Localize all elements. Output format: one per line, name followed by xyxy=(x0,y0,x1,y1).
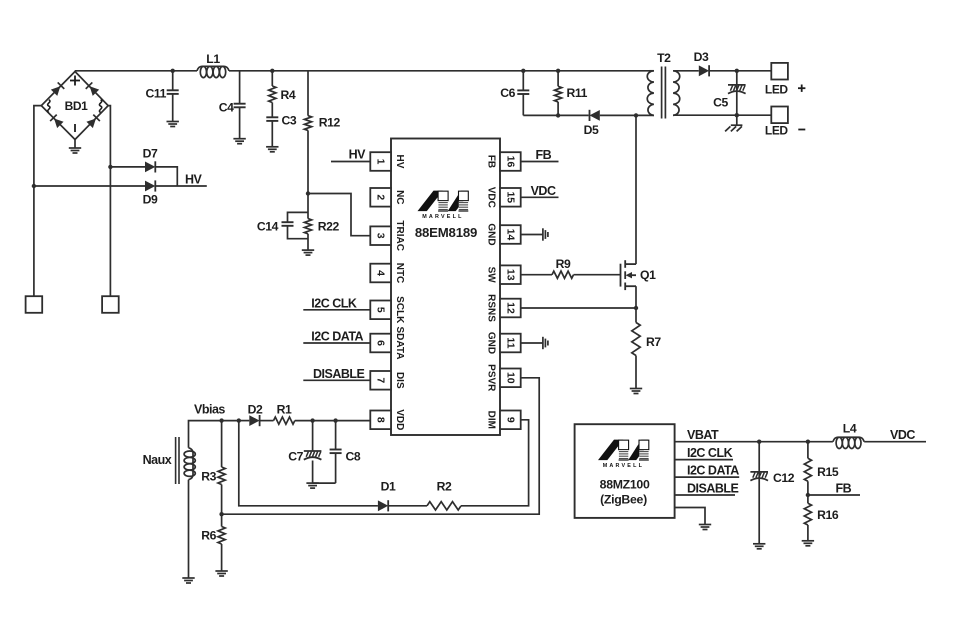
node drain at snubber xyxy=(634,113,638,117)
svg-text:DIM: DIM xyxy=(486,411,497,429)
svg-text:C5: C5 xyxy=(713,96,728,110)
transformer T2 core xyxy=(662,67,666,119)
ground at pin 11 xyxy=(543,337,548,349)
svg-text:NTC: NTC xyxy=(394,263,405,284)
LED+ terminal xyxy=(771,63,788,80)
svg-text:I2C DATA: I2C DATA xyxy=(311,330,363,344)
svg-text:C6: C6 xyxy=(500,86,515,100)
svg-text:C12: C12 xyxy=(773,471,795,485)
resistor R16 xyxy=(807,495,809,503)
svg-text:GND: GND xyxy=(486,332,497,354)
svg-text:5: 5 xyxy=(375,307,387,313)
svg-text:14: 14 xyxy=(504,229,516,241)
wire D3 to LED+ xyxy=(709,70,771,72)
svg-text:VBAT: VBAT xyxy=(687,428,719,442)
svg-text:(ZigBee): (ZigBee) xyxy=(600,493,647,507)
diode D7 xyxy=(145,161,155,172)
svg-text:HV: HV xyxy=(394,155,405,169)
wire to diode D7 xyxy=(110,166,145,168)
bridge plus mark xyxy=(70,76,80,86)
resistor R11 xyxy=(557,71,559,87)
svg-text:1: 1 xyxy=(375,159,387,165)
wire R7 to ground xyxy=(635,356,637,389)
inductor L4 xyxy=(833,437,864,442)
svg-text:15: 15 xyxy=(504,191,516,203)
svg-text:NC: NC xyxy=(394,190,405,204)
svg-text:R2: R2 xyxy=(437,480,452,494)
svg-text:SDATA: SDATA xyxy=(394,327,405,360)
svg-text:10: 10 xyxy=(504,372,516,384)
capacitor C12 xyxy=(758,442,760,544)
node D2 branch xyxy=(237,418,241,422)
pin 9 box xyxy=(500,411,521,430)
wire D7 cathode down to HV line xyxy=(155,167,177,186)
node on right AC line xyxy=(108,165,112,169)
ground below R6 xyxy=(215,571,227,576)
transistor Q1 MOSFET xyxy=(621,260,637,290)
resistor R12 xyxy=(307,71,309,116)
resistor R4 xyxy=(271,71,273,86)
svg-text:I2C CLK: I2C CLK xyxy=(311,296,357,310)
ground below R7 xyxy=(630,389,642,394)
svg-text:R3: R3 xyxy=(201,470,216,484)
diode D1 xyxy=(378,500,388,511)
wire pin 12 RSNS to node xyxy=(521,307,636,309)
bridge minus mark xyxy=(74,124,76,132)
svg-text:D1: D1 xyxy=(381,480,396,494)
transformer T2 primary winding xyxy=(647,71,654,116)
ground below C3 xyxy=(266,147,278,152)
bridge diode bottom-right xyxy=(86,115,99,129)
svg-text:3: 3 xyxy=(375,233,387,239)
LED- terminal xyxy=(771,107,788,124)
capacitor C14 xyxy=(288,212,309,222)
svg-text:LED: LED xyxy=(765,124,789,138)
winding Naux xyxy=(189,448,194,480)
AC input terminal left xyxy=(26,296,43,313)
svg-text:R15: R15 xyxy=(817,465,839,479)
wire bridge left vertex to AC terminal xyxy=(34,106,41,297)
ground below U2 xyxy=(699,525,711,530)
svg-text:HV: HV xyxy=(185,173,203,187)
svg-text:MARVELL: MARVELL xyxy=(422,214,463,220)
svg-text:I2C CLK: I2C CLK xyxy=(687,446,733,460)
pin 15 box xyxy=(500,188,521,207)
wire D1 to R2 xyxy=(388,505,427,507)
wire Naux bottom to ground xyxy=(188,480,190,578)
svg-text:88EM8189: 88EM8189 xyxy=(415,225,477,240)
resistor R7 xyxy=(635,308,637,323)
wire D5 to drain node xyxy=(600,114,650,116)
node R15 top xyxy=(806,440,810,444)
svg-text:FB: FB xyxy=(836,482,852,496)
svg-text:T2: T2 xyxy=(657,51,671,65)
node C8 xyxy=(333,418,337,422)
bridge diode top-left xyxy=(51,82,64,96)
diode D3 xyxy=(699,65,709,76)
ground below C11 xyxy=(167,122,179,127)
resistor R3 xyxy=(221,421,223,467)
svg-text:BD1: BD1 xyxy=(65,99,89,113)
wire HV to pin 1 xyxy=(331,161,370,163)
svg-text:VDC: VDC xyxy=(890,428,915,442)
svg-text:HV: HV xyxy=(349,148,367,162)
node output cap top xyxy=(735,69,739,73)
Marvell logo on U2 xyxy=(598,440,649,470)
svg-text:GND: GND xyxy=(486,223,497,245)
pin 16 box xyxy=(500,152,521,171)
pin 7 box xyxy=(370,371,391,390)
pin 1 box xyxy=(370,152,391,171)
capacitor C7 xyxy=(312,421,314,451)
wire I2C DATA stub xyxy=(675,476,740,478)
wire C7 C8 common to ground xyxy=(313,482,336,484)
svg-text:Naux: Naux xyxy=(143,453,172,467)
pin 11 box xyxy=(500,334,521,353)
IC U2 88MZ100 body xyxy=(575,424,675,518)
svg-text:R6: R6 xyxy=(201,529,216,543)
ground below R16 xyxy=(802,541,814,546)
svg-text:9: 9 xyxy=(504,417,516,423)
wire pin 10 PSVR loop to bias divider xyxy=(222,378,540,514)
svg-text:L4: L4 xyxy=(843,422,857,436)
diode D2 xyxy=(239,420,250,422)
svg-text:FB: FB xyxy=(536,148,552,162)
wire I2C CLK stub xyxy=(675,459,733,461)
ground below C7 xyxy=(306,483,318,488)
wire secondary bottom to LED- xyxy=(673,114,771,116)
pin 5 box xyxy=(370,301,391,320)
svg-text:6: 6 xyxy=(375,340,387,346)
transformer T2 secondary winding xyxy=(673,71,680,116)
wire pin 11 to ground xyxy=(521,342,543,344)
wire L4 to VDC xyxy=(864,441,926,443)
svg-text:88MZ100: 88MZ100 xyxy=(600,478,650,492)
svg-text:8: 8 xyxy=(375,417,387,423)
wire Q1 drain up to D5 node xyxy=(635,115,637,264)
ground below BD1 xyxy=(69,148,81,153)
wire HV net xyxy=(155,185,207,187)
svg-text:2: 2 xyxy=(375,194,387,200)
capacitor C5 xyxy=(736,71,738,125)
pin 3 box xyxy=(370,226,391,245)
svg-text:SCLK: SCLK xyxy=(394,296,405,324)
AC input terminal right xyxy=(102,296,119,313)
wire DISABLE stub xyxy=(675,494,735,496)
resistor R9 xyxy=(552,271,574,278)
svg-text:C11: C11 xyxy=(146,87,167,101)
pin 8 box xyxy=(370,411,391,430)
svg-text:D3: D3 xyxy=(694,50,709,64)
resistor R22 xyxy=(307,194,309,219)
capacitor C11 xyxy=(172,71,174,91)
svg-text:D5: D5 xyxy=(584,123,599,137)
pin 4 box xyxy=(370,264,391,283)
pin 13 box xyxy=(500,265,521,284)
svg-text:16: 16 xyxy=(504,156,516,168)
svg-text:VDC: VDC xyxy=(531,184,556,198)
svg-text:R4: R4 xyxy=(281,88,296,102)
wire I2C DATA to pin 6 xyxy=(303,342,370,344)
svg-text:I2C DATA: I2C DATA xyxy=(687,464,739,478)
svg-text:VDC: VDC xyxy=(486,187,497,208)
svg-text:Q1: Q1 xyxy=(640,268,656,282)
svg-text:R16: R16 xyxy=(817,508,839,522)
pin 6 box xyxy=(370,334,391,353)
svg-text:4: 4 xyxy=(375,270,387,276)
capacitor C4 xyxy=(239,71,241,104)
svg-text:R1: R1 xyxy=(277,403,292,417)
diode D9 xyxy=(145,180,155,191)
node C7 xyxy=(310,418,314,422)
node Vbias xyxy=(219,418,223,422)
node C11 on top rail xyxy=(171,69,175,73)
pin 10 box xyxy=(500,369,521,388)
wire I2C CLK to pin 5 xyxy=(303,309,370,311)
wire top rail from L1 to T2 primary xyxy=(229,70,650,72)
svg-text:R9: R9 xyxy=(556,257,571,271)
ground at pin 14 xyxy=(543,228,548,240)
svg-text:C7: C7 xyxy=(288,450,303,464)
svg-text:PSVR: PSVR xyxy=(486,364,497,392)
node R11 top xyxy=(556,69,560,73)
node TRIAC divider xyxy=(306,191,310,195)
wire bridge bottom to ground xyxy=(74,140,76,149)
svg-text:RSNS: RSNS xyxy=(486,294,497,322)
wire VBAT rail xyxy=(675,441,833,443)
pin 2 box xyxy=(370,188,391,207)
bridge AC mark right xyxy=(99,100,101,113)
node Q1 source / RSNS xyxy=(634,306,638,310)
wire top rail from bridge to L1 xyxy=(75,70,197,72)
svg-text:7: 7 xyxy=(375,377,387,383)
svg-text:C3: C3 xyxy=(282,114,297,128)
bridge diode top-right xyxy=(86,82,99,96)
svg-text:C14: C14 xyxy=(257,220,279,234)
svg-text:DIS: DIS xyxy=(394,372,405,389)
wire D2 branch down to D1 line xyxy=(239,421,378,506)
wire Q1 source down xyxy=(635,286,637,308)
wire pin 13 to R9 xyxy=(521,274,552,276)
svg-text:12: 12 xyxy=(504,302,516,314)
resistor R1 xyxy=(274,417,295,424)
svg-text:C8: C8 xyxy=(346,450,361,464)
Marvell logo on U1 xyxy=(418,191,469,221)
svg-text:DISABLE: DISABLE xyxy=(313,367,365,381)
svg-text:FB: FB xyxy=(486,155,497,168)
node C12 top xyxy=(757,440,761,444)
wire to diode D9 xyxy=(34,185,145,187)
wire pin 9 DIM loop to R2 xyxy=(461,420,529,506)
wire DISABLE to pin 7 xyxy=(303,379,370,381)
capacitor C3 xyxy=(271,103,273,118)
wire Vbias rail xyxy=(189,421,239,448)
wire FB from pin 16 xyxy=(521,161,559,163)
svg-text:D7: D7 xyxy=(143,147,158,161)
svg-text:VDD: VDD xyxy=(394,409,405,430)
wire snubber bottom rail xyxy=(523,114,588,116)
ground below Naux xyxy=(182,578,194,583)
svg-text:C4: C4 xyxy=(219,101,234,115)
svg-text:Vbias: Vbias xyxy=(194,403,225,417)
node FB divider xyxy=(806,493,810,497)
svg-text:D9: D9 xyxy=(143,193,158,207)
wire R9 to Q1 gate xyxy=(574,274,621,276)
wire R1 to pin 8 VDD xyxy=(295,420,371,422)
wire secondary top to D3 xyxy=(673,70,699,72)
svg-text:SW: SW xyxy=(486,267,497,284)
svg-text:MARVELL: MARVELL xyxy=(603,463,644,469)
wire FB net xyxy=(808,494,860,496)
node R4 on top rail xyxy=(270,69,274,73)
wire node to TRIAC pin 3 xyxy=(308,194,370,236)
ground below R22 xyxy=(302,250,314,255)
resistor R2 xyxy=(427,502,461,510)
wire bridge right vertex down to AC terminal xyxy=(108,106,110,297)
capacitor C8 xyxy=(335,421,337,450)
svg-text:DISABLE: DISABLE xyxy=(687,482,739,496)
op IC U1 88EM8189 body xyxy=(391,139,500,436)
ground below C4 xyxy=(233,139,245,144)
svg-text:R12: R12 xyxy=(319,116,341,130)
node output cap bottom xyxy=(735,113,739,117)
svg-text:11: 11 xyxy=(504,337,516,348)
resistor R15 xyxy=(807,442,809,459)
ground below C12 xyxy=(753,544,765,549)
bridge AC mark left xyxy=(48,100,50,113)
svg-text:D2: D2 xyxy=(248,403,263,417)
node on left AC line xyxy=(32,184,36,188)
pin 14 box xyxy=(500,225,521,244)
wire U2 ground stub xyxy=(675,508,705,525)
svg-text:R11: R11 xyxy=(567,86,588,100)
chassis ground below C5 xyxy=(725,125,742,131)
svg-text:13: 13 xyxy=(504,269,516,281)
bridge diode bottom-left xyxy=(50,115,63,129)
pin 12 box xyxy=(500,299,521,318)
Naux core bars xyxy=(176,437,179,484)
wire pin 14 to ground xyxy=(521,234,543,236)
svg-text:R7: R7 xyxy=(646,335,661,349)
resistor R6 xyxy=(221,514,223,526)
node C6 top xyxy=(521,69,525,73)
capacitor C6 xyxy=(522,71,524,91)
wire D2 to R1 xyxy=(260,420,274,422)
wire VDC from pin 15 xyxy=(521,196,559,198)
node R3/R6 divider xyxy=(219,512,223,516)
bridge rectifier BD1 xyxy=(41,72,108,140)
inductor L1 xyxy=(197,66,229,71)
svg-text:R22: R22 xyxy=(318,220,340,234)
svg-text:TRIAC: TRIAC xyxy=(394,220,405,251)
svg-text:L1: L1 xyxy=(206,52,220,66)
diode D5 xyxy=(590,110,600,121)
node R11 bottom xyxy=(556,113,560,117)
svg-text:LED: LED xyxy=(765,83,789,97)
